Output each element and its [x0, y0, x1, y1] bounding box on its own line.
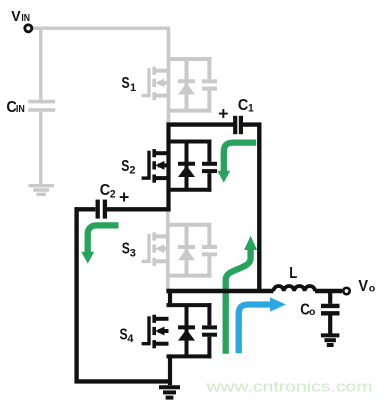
- node: VIN terminal circle: [25, 25, 32, 32]
- wire S4 drain (switch node down to S4): [168, 289, 172, 307]
- S3 (inactive, gray) output-capacitance branch lower wire: [207, 256, 211, 277]
- svg-text:S: S: [122, 239, 130, 257]
- current arrow D: output current (blue): [239, 305, 271, 354]
- S4 (active) channel dash middle: [152, 327, 156, 335]
- S2 (active) gate lead: [142, 176, 149, 179]
- capacitor C2 right plate: [103, 200, 107, 219]
- transistor S4 (active) box bottom wire: [167, 354, 212, 358]
- wire switch node horizontal: [166, 289, 273, 293]
- S4 (active) output-capacitance branch upper wire: [207, 303, 211, 325]
- S4 (active) output-capacitance bottom plate: [202, 333, 217, 337]
- current arrow A: C1 discharge loop (green, top right): [224, 143, 256, 172]
- S1 (inactive, gray) output-capacitance branch upper wire: [207, 57, 211, 79]
- svg-text:2: 2: [129, 165, 135, 177]
- S3 (inactive, gray) channel dash middle: [152, 245, 156, 253]
- svg-text:o: o: [369, 282, 375, 294]
- capacitor C2 left plate: [96, 200, 100, 219]
- S1 (inactive, gray) body arrow: [155, 78, 164, 87]
- S2 (active) source lead: [154, 176, 168, 180]
- svg-text:L: L: [289, 265, 297, 282]
- S1 (inactive, gray) drain lead: [154, 69, 168, 73]
- S2 (active) body-diode triangle (anode, pointing up): [178, 166, 195, 178]
- S3 (inactive, gray) gate plate: [147, 234, 150, 263]
- capacitor CIN bottom plate: [28, 108, 55, 112]
- transistor S2 (active) box bottom wire: [167, 188, 212, 192]
- wire C2 left segment: [75, 207, 95, 211]
- S2 (active) output-capacitance branch lower wire: [207, 173, 211, 192]
- S4 (active) channel dash bottom: [152, 340, 156, 348]
- transistor S1 (inactive, gray) box top wire: [167, 57, 212, 61]
- S2 (active) channel dash middle: [152, 161, 156, 169]
- current arrow C: inductor current from C2 branch (green, long S-curve up): [226, 250, 251, 354]
- S1 (inactive, gray) output-capacitance branch lower wire: [207, 91, 211, 113]
- S1 (inactive, gray) channel dash middle: [152, 79, 156, 87]
- capacitor CIN top plate: [28, 100, 55, 104]
- S1 (inactive, gray) output-capacitance bottom plate: [202, 87, 217, 91]
- S3 (inactive, gray) output-capacitance branch upper wire: [207, 223, 211, 245]
- ground symbol below S4: [159, 385, 180, 389]
- S4 (active) body-diode triangle (anode, pointing up): [178, 329, 195, 341]
- svg-text:+: +: [119, 187, 129, 207]
- svg-text:1: 1: [130, 82, 136, 94]
- S4 (active) body lead: [158, 329, 169, 333]
- transistor S3 (inactive, gray) box bottom wire: [167, 274, 212, 278]
- S2 (active) output-capacitance bottom plate: [202, 169, 217, 173]
- wire inductor to Vo: [315, 289, 342, 293]
- wire C1 right segment + right-side vertical down to switch node: [243, 125, 259, 291]
- S3 (inactive, gray) source lead: [154, 259, 168, 263]
- S4 (active) body arrow: [155, 327, 164, 336]
- wire C2 right segment to S2/S3 node: [107, 207, 171, 211]
- S3 (inactive, gray) body lead: [158, 247, 169, 251]
- S2 (active) output-capacitance branch upper wire: [207, 140, 211, 162]
- wire S3 drain/source spine (gray vertical): [166, 207, 170, 293]
- S2 (active) body arrow: [155, 161, 164, 170]
- S1 (inactive, gray) source lead: [154, 94, 168, 98]
- wire CIN lower: [39, 112, 42, 186]
- node: Vo terminal circle: [343, 288, 349, 294]
- svg-text:+: +: [218, 104, 228, 124]
- svg-text:IN: IN: [21, 12, 30, 23]
- svg-text:V: V: [11, 9, 21, 25]
- capacitor C1 right plate: [239, 116, 243, 134]
- svg-text:V: V: [358, 278, 368, 295]
- S1 (inactive, gray) gate lead: [142, 94, 149, 97]
- S3 (inactive, gray) output-capacitance bottom plate: [202, 252, 217, 256]
- ground symbol below Co: [321, 333, 340, 337]
- S4 (active) output-capacitance top plate: [202, 325, 217, 329]
- S1 (inactive, gray) body-diode branch wire: [185, 59, 189, 111]
- wire VIN top rail (gray): [33, 27, 169, 30]
- S3 (inactive, gray) channel dash bottom: [152, 258, 156, 266]
- ground symbol below CIN (gray): [29, 184, 55, 187]
- svg-text:C: C: [238, 96, 248, 114]
- S2 (active) body lead: [158, 163, 169, 167]
- S1 (inactive, gray) body lead: [158, 81, 169, 85]
- capacitor Co bottom plate: [321, 311, 340, 315]
- S1 (inactive, gray) body-diode triangle (anode, pointing up): [178, 83, 195, 95]
- wire C1 left segment (S1/S2 node to C1): [167, 122, 234, 126]
- S3 (inactive, gray) body arrow: [155, 244, 164, 253]
- S3 (inactive, gray) body-diode branch wire: [185, 225, 189, 276]
- S2 (active) drain lead: [154, 151, 168, 155]
- S2 (active) channel dash bottom: [152, 175, 156, 183]
- inductor L coils: [273, 286, 315, 291]
- wire S2 spine (C1 node down through S2 to C2 node): [166, 123, 170, 210]
- svg-text:1: 1: [248, 102, 254, 114]
- S3 (inactive, gray) body-diode triangle (anode, pointing up): [178, 249, 195, 261]
- S2 (active) gate plate: [147, 151, 150, 180]
- S1 (inactive, gray) gate plate: [147, 68, 150, 97]
- wire Co lower: [328, 315, 332, 333]
- wire CIN tap upper: [39, 27, 42, 100]
- S1 (inactive, gray) body-diode cathode bar: [178, 79, 195, 83]
- svg-text:S: S: [122, 74, 130, 92]
- capacitor Co top plate: [321, 304, 340, 308]
- svg-text:4: 4: [127, 333, 134, 345]
- wire S4 source to ground: [168, 354, 172, 385]
- current arrow B: C2 charge loop (green, left): [88, 225, 119, 252]
- S3 (inactive, gray) body-diode cathode bar: [178, 245, 195, 249]
- wire S1 drain/source spine (gray vertical): [167, 27, 171, 124]
- S4 (active) body-diode cathode bar: [178, 325, 195, 329]
- transistor S1 (inactive, gray) box bottom wire: [167, 109, 212, 113]
- capacitor C1 left plate: [233, 116, 237, 134]
- S3 (inactive, gray) drain lead: [154, 234, 168, 238]
- svg-text:IN: IN: [16, 103, 25, 115]
- svg-text:C: C: [100, 181, 110, 199]
- svg-text:2: 2: [110, 188, 116, 200]
- S2 (active) body-diode branch wire: [185, 142, 189, 190]
- wire left return rail (C2 to bottom): [77, 207, 171, 381]
- S3 (inactive, gray) channel dash top: [152, 232, 156, 240]
- S1 (inactive, gray) channel dash bottom: [152, 92, 156, 100]
- svg-text:3: 3: [130, 247, 136, 259]
- svg-text:S: S: [121, 157, 129, 175]
- S4 (active) body-diode branch wire: [185, 305, 189, 356]
- S4 (active) source lead: [154, 342, 168, 346]
- transistor S2 (active) box top wire: [167, 140, 212, 144]
- S4 (active) drain lead: [154, 317, 168, 321]
- transistor S3 (inactive, gray) box top wire: [167, 223, 212, 227]
- S1 (inactive, gray) output-capacitance top plate: [202, 79, 217, 83]
- S4 (active) gate plate: [147, 316, 150, 345]
- S4 (active) channel dash top: [152, 315, 156, 323]
- S4 (active) gate lead: [142, 342, 149, 345]
- transistor S4 (active) box top wire: [167, 303, 212, 307]
- S3 (inactive, gray) output-capacitance top plate: [202, 245, 217, 249]
- S2 (active) output-capacitance top plate: [202, 162, 217, 166]
- S4 (active) output-capacitance branch lower wire: [207, 337, 211, 359]
- S3 (inactive, gray) gate lead: [142, 260, 149, 263]
- svg-text:www.cntronics.com: www.cntronics.com: [205, 380, 372, 396]
- wire Co tap upper: [328, 291, 332, 304]
- S1 (inactive, gray) channel dash top: [152, 67, 156, 75]
- svg-text:o: o: [309, 306, 315, 318]
- S2 (active) body-diode cathode bar: [178, 162, 195, 166]
- S2 (active) channel dash top: [152, 149, 156, 157]
